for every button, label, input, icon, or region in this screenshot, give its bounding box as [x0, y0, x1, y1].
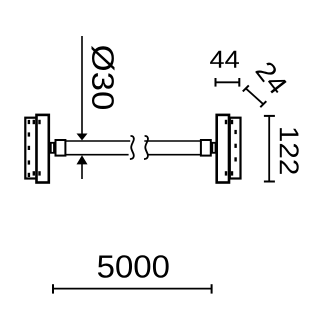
left connector tab: [51, 143, 54, 153]
left bracket screw hole 4: [28, 160, 30, 164]
dimension Ø30 arrowhead top: [77, 134, 88, 141]
tube break curve right: [144, 136, 148, 159]
dimension 122 tick top: [264, 115, 275, 117]
left bracket screw hole 3: [28, 146, 30, 150]
tube right segment bottom line: [148, 154, 200, 156]
right connector tab: [212, 143, 215, 153]
right bracket clip top (outer plate): [231, 120, 233, 124]
right bracket screw hole 2: [234, 144, 236, 148]
left bracket clip top (inner plate): [38, 120, 40, 124]
dimension label 122 (rotated 90): [280, 128, 299, 174]
right connector: [201, 140, 211, 156]
right bracket inner plate: [217, 115, 229, 183]
dimension Ø30 extension line top: [81, 36, 83, 134]
dimension 5000 line: [53, 288, 212, 290]
dimension 44 line: [216, 81, 240, 83]
right bracket screw hole 1: [234, 130, 236, 134]
dimension 122 line: [268, 116, 270, 182]
dimension 122 tick bottom: [264, 181, 275, 183]
tube right segment top line: [144, 140, 200, 142]
left bracket clip top (outer plate): [33, 120, 35, 124]
left bracket screw hole 1: [28, 120, 30, 124]
dimension 5000 tick left: [52, 284, 54, 293]
dimension label 5000: [98, 255, 169, 278]
dimension 44 tick right: [238, 78, 240, 87]
right bracket screw hole 3: [234, 157, 236, 161]
dimension 24 tick upper: [243, 85, 249, 91]
dimension 5000 tick right: [211, 284, 213, 293]
dimension Ø30 arrowhead bottom: [77, 155, 88, 164]
tube left segment bottom line: [65, 154, 128, 156]
left bracket clip bottom (inner plate): [38, 171, 40, 175]
dimension label 24 (rotated 45): [255, 60, 288, 95]
tube break curve left: [130, 136, 134, 159]
tube left segment top line: [65, 140, 130, 142]
dimension 44 tick left: [215, 78, 217, 87]
left bracket clip bottom (outer plate): [33, 171, 35, 175]
dimension 24 tick lower: [260, 101, 266, 107]
left connector: [56, 140, 66, 156]
right bracket clip top (inner plate): [225, 120, 227, 124]
right bracket clip bottom (inner plate): [225, 171, 227, 175]
left bracket screw hole 2: [28, 132, 30, 136]
right bracket clip bottom (outer plate): [231, 171, 233, 175]
left bracket outer plate: [25, 118, 36, 179]
right bracket outer plate: [230, 118, 241, 179]
dimension label Ø30: [92, 46, 115, 109]
dimension 24 line (diagonal): [246, 88, 263, 104]
dimension label 44: [210, 51, 239, 68]
dimension Ø30 extension line bottom: [81, 164, 83, 179]
left bracket inner plate: [37, 115, 49, 183]
left bracket screw hole 5: [28, 173, 30, 177]
